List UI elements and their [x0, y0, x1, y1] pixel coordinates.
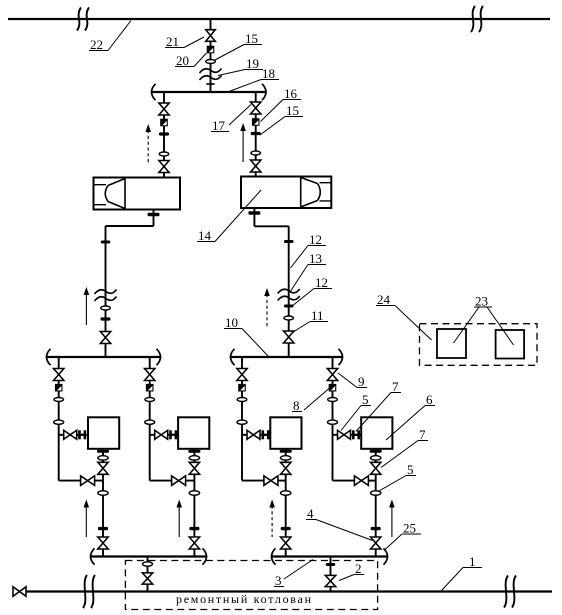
pipeline break symbol bottom-left — [83, 575, 95, 608]
flow arrow unit 2 — [178, 506, 180, 538]
valve below unit 2 box — [189, 462, 199, 474]
flange lens 2 on unit 3 branch — [237, 420, 247, 424]
svg-text:17: 17 — [212, 118, 226, 133]
apparatus box unit 1 — [88, 417, 119, 449]
valve on unit 4 branch — [327, 369, 337, 381]
pipeline break symbol bottom-right — [504, 576, 516, 608]
apparatus box unit 4 — [361, 417, 392, 449]
flange lens on left suction branch — [159, 152, 169, 156]
svg-text:12: 12 — [315, 275, 328, 290]
svg-text:11: 11 — [311, 308, 324, 323]
right bottom header left cap — [272, 548, 276, 564]
wire: left discharge downcomer — [105, 226, 107, 356]
actuator valve on left suction branch — [160, 119, 168, 127]
wire: unit 3 outlet line — [285, 449, 287, 557]
wire: unit 2 inlet branch — [149, 357, 151, 481]
flange lens on unit 4 outlet — [371, 491, 381, 495]
left bottom header right cap — [203, 548, 207, 564]
wire: left lower header — [47, 356, 160, 358]
valve at left machine inlet — [159, 161, 169, 173]
check/flange fitting unit 1 — [78, 430, 81, 439]
svg-text:14: 14 — [198, 228, 212, 243]
pipeline break symbol top-right — [471, 6, 483, 32]
valve on left drain — [142, 573, 152, 584]
svg-text:7: 7 — [419, 427, 426, 442]
wire: unit 3 bypass — [242, 480, 286, 482]
flow arrow right suction — [242, 129, 244, 162]
dashed enclosure 24 — [420, 324, 538, 366]
right lower header right cap — [339, 349, 343, 365]
svg-text:7: 7 — [392, 379, 399, 394]
apparatus box unit 3 — [270, 417, 301, 449]
apparatus box 23 right — [496, 330, 524, 359]
valve 21 — [206, 30, 216, 42]
wire: unit 4 box inlet line — [333, 434, 362, 436]
svg-text:23: 23 — [475, 294, 488, 309]
valve on unit 4 outlet — [371, 537, 381, 549]
wire: bottom main pipeline 1 — [26, 590, 552, 592]
bypass valve unit 4 — [354, 476, 368, 486]
wire: unit 4 outlet line — [375, 449, 377, 557]
svg-text:2: 2 — [355, 561, 362, 576]
svg-text:18: 18 — [262, 66, 275, 81]
wire: unit 3 inlet branch — [241, 357, 243, 481]
flange 12 on right downcomer — [284, 240, 294, 243]
svg-text:20: 20 — [176, 53, 189, 68]
actuator valve on unit 1 branch — [55, 384, 63, 392]
wire: left bottom header — [91, 555, 206, 557]
svg-text:21: 21 — [166, 34, 179, 49]
valve 11 — [284, 331, 294, 343]
flow arrow unit 1 — [85, 506, 87, 538]
flange lens 2 on unit 4 branch — [328, 420, 338, 424]
valve on left downcomer — [100, 332, 110, 344]
wire: drop from main pipeline to upper header — [210, 19, 212, 92]
wire: unit 1 outlet line — [102, 449, 104, 557]
wire: unit 1 bypass — [59, 480, 103, 482]
wire: right machine discharge — [253, 208, 255, 226]
left bottom header left cap — [91, 548, 95, 564]
flange on unit 1 outlet — [98, 527, 108, 530]
svg-text:19: 19 — [246, 56, 259, 71]
valve on left suction branch — [159, 103, 169, 115]
flange lens 2 on unit 2 branch — [145, 420, 155, 424]
svg-text:9: 9 — [358, 374, 365, 389]
dashed enclosure: repair pit — [125, 561, 377, 610]
flange lens below unit 4 box — [371, 456, 381, 460]
wire: right discharge downcomer 12 — [288, 226, 290, 357]
valve below unit 4 box — [371, 462, 381, 474]
wire: unit 2 box inlet line — [150, 434, 178, 436]
valve at bottom pipeline left end — [13, 587, 26, 597]
svg-text:15: 15 — [286, 103, 299, 118]
bypass valve unit 3 — [264, 476, 278, 486]
svg-text:10: 10 — [225, 315, 238, 330]
bypass valve unit 2 — [172, 476, 186, 486]
valve on unit 1 branch — [54, 369, 64, 381]
valve 2 on right drain — [325, 575, 335, 586]
svg-text:16: 16 — [284, 86, 298, 101]
bypass valve unit 1 — [81, 476, 95, 486]
wire: right bottom header — [272, 555, 387, 557]
flow arrow left discharge — [85, 293, 87, 325]
flange at left machine outlet — [148, 213, 160, 216]
flange on unit 2 outlet — [189, 527, 199, 530]
flange lens on unit 1 branch — [54, 398, 64, 402]
svg-text:25: 25 — [403, 521, 416, 536]
flange lens on unit 4 branch — [328, 398, 338, 402]
wire: right suction branch — [255, 92, 257, 177]
wire: unit 1 box inlet line — [59, 434, 88, 436]
flange tick on drop — [206, 83, 214, 85]
check/flange fitting unit 4 — [352, 430, 355, 439]
wire: unit 4 bypass — [333, 480, 376, 482]
valve on unit 1 outlet — [98, 537, 108, 549]
valve at right machine inlet — [251, 160, 261, 172]
valve on unit 3 outlet — [281, 537, 291, 549]
flange on left suction branch — [159, 132, 169, 135]
svg-text:5: 5 — [362, 392, 369, 407]
actuator valve on unit 2 branch — [146, 384, 154, 392]
wire: left machine discharge — [153, 210, 155, 227]
flange 15 on right suction branch — [251, 132, 261, 135]
flange at right machine outlet — [248, 211, 260, 214]
flange lens on right suction branch — [251, 151, 261, 155]
flange bar below unit 1 box — [97, 450, 109, 453]
flange lens below unit 1 box — [98, 456, 108, 460]
svg-text:13: 13 — [309, 251, 322, 266]
flange lens on left drain — [143, 562, 153, 566]
valve on unit 2 branch — [145, 369, 155, 381]
flange on left downcomer — [101, 241, 111, 244]
left lower header left cap — [47, 349, 51, 365]
break 13 (left disconnection) — [95, 290, 117, 302]
actuator valve on unit 4 branch — [329, 384, 337, 392]
header 18 left cap — [152, 84, 156, 100]
check/flange fitting unit 3 — [262, 430, 265, 439]
flange on right drain — [326, 563, 336, 566]
flange lens 2 on unit 1 branch — [54, 420, 64, 424]
flow arrow (dashed) left suction — [147, 130, 149, 163]
flange lens on unit 3 outlet — [281, 491, 291, 495]
right lower header left cap — [231, 349, 235, 365]
wire: left suction branch — [163, 92, 165, 178]
wire: unit 1 inlet branch — [58, 357, 60, 481]
flange lens on left downcomer — [101, 306, 111, 310]
flow arrow unit 3 — [271, 506, 273, 538]
pipeline break symbol top-left — [77, 8, 89, 31]
svg-text:24: 24 — [377, 292, 391, 307]
flange bar below unit 4 box — [370, 450, 382, 453]
left lower header right cap — [157, 349, 161, 365]
check/flange fitting unit 2 — [169, 430, 172, 439]
valve on unit 3 box inlet — [247, 430, 260, 439]
flange bar below unit 2 box — [188, 450, 200, 453]
compressor unit (left GPU) — [94, 178, 181, 210]
svg-text:4: 4 — [307, 506, 314, 521]
flow arrow right discharge (dashed) — [266, 294, 268, 327]
flange lens on unit 2 outlet — [189, 491, 199, 495]
valve on unit 3 branch — [237, 369, 247, 381]
wire: unit 3 box inlet line — [242, 434, 270, 436]
flange lens below unit 3 box — [281, 456, 291, 460]
svg-text:5: 5 — [407, 462, 414, 477]
valve on unit 2 outlet — [189, 537, 199, 549]
flange on left downcomer — [101, 317, 111, 320]
wire: upper header 18 — [152, 91, 266, 93]
flow arrow unit 4 — [391, 506, 393, 538]
wire: unit 2 outlet line — [193, 449, 195, 557]
flange bar below unit 3 box — [280, 450, 292, 453]
wire: right drain drop 2 — [330, 557, 332, 592]
flange lens below unit 2 box — [189, 456, 199, 460]
wire: left discharge elbow — [106, 225, 154, 227]
wire: left drain drop 3 — [147, 557, 149, 592]
wire: right lower header 10 — [231, 356, 342, 358]
actuator valve 20 — [207, 46, 215, 54]
valve on unit 4 box inlet — [338, 430, 351, 439]
svg-text:ремонтный котлован: ремонтный котлован — [176, 592, 312, 606]
break 13 (right disconnection) — [278, 289, 300, 301]
svg-text:1: 1 — [469, 554, 476, 569]
valve on unit 2 box inlet — [155, 430, 168, 439]
break 19 (disconnection point) — [200, 69, 222, 81]
flange 15 on drop — [206, 60, 216, 64]
svg-text:8: 8 — [293, 398, 300, 413]
flange lens on unit 3 branch — [237, 398, 247, 402]
svg-text:12: 12 — [309, 232, 322, 247]
flange on unit 3 outlet — [281, 527, 291, 530]
valve below unit 3 box — [281, 462, 291, 474]
flange 12 on right downcomer — [284, 305, 294, 308]
flange on unit 4 outlet — [371, 527, 381, 530]
right bottom header right cap 25 — [384, 548, 388, 564]
compressor unit 14 (right GPU) — [241, 177, 331, 209]
actuator valve on unit 3 branch — [238, 384, 246, 392]
wire: top main pipeline 22 — [8, 18, 550, 20]
flange lens on unit 2 branch — [145, 398, 155, 402]
flange lens on right downcomer — [284, 316, 294, 320]
apparatus box unit 2 — [178, 417, 209, 449]
wire: unit 2 bypass — [150, 480, 195, 482]
wire: right discharge elbow — [254, 225, 288, 227]
svg-text:3: 3 — [275, 573, 282, 588]
svg-text:22: 22 — [90, 37, 103, 52]
actuator valve 16 — [252, 118, 260, 126]
valve on unit 1 box inlet — [64, 430, 77, 439]
valve 17 on right suction branch — [251, 102, 261, 114]
wire: unit 4 inlet branch — [332, 357, 334, 481]
apparatus box 23 left — [437, 329, 466, 358]
header 18 right cap — [262, 84, 266, 100]
flange lens on unit 1 outlet — [98, 491, 108, 495]
svg-text:6: 6 — [426, 392, 433, 407]
svg-text:15: 15 — [245, 31, 258, 46]
valve below unit 1 box — [98, 462, 108, 474]
